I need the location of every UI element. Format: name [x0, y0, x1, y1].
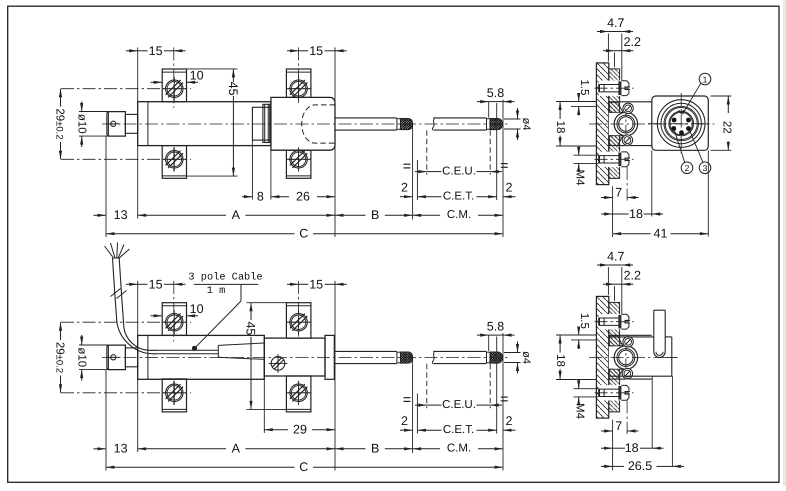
side section top: dim 41	[613, 227, 709, 241]
top view: extended rod knurled tip	[487, 119, 503, 130]
side section top: section axis centerline	[589, 123, 715, 125]
top view: rod tip knurled end	[397, 119, 413, 130]
side section top: lower clamp wedge (hatched)	[609, 136, 623, 146]
side section bottom: dim 4.7	[597, 249, 633, 266]
connector pin 4	[686, 126, 691, 131]
bottom view: dim diameter 4	[504, 342, 532, 374]
svg-text:C.E.U.: C.E.U.	[442, 165, 476, 177]
bottom view: dim C.E.U.	[415, 399, 502, 411]
top view: extension line at rod tip	[412, 124, 414, 220]
bottom view: dim 13	[94, 442, 128, 456]
side section top: body tube layer (hatched)	[609, 69, 620, 178]
svg-text:7: 7	[615, 185, 622, 199]
svg-text:C.E.T.: C.E.T.	[443, 191, 474, 203]
svg-text:29±0.2: 29±0.2	[53, 342, 65, 373]
bottom view: extension line CET left	[416, 394, 418, 434]
bottom view: label 3 pole Cable / 1 m	[188, 272, 262, 298]
bottom view: end block screw	[269, 354, 288, 373]
top view: dim 15 left	[126, 44, 186, 58]
side section top: rod bearing hub	[614, 112, 637, 135]
bottom view: dim 15 left	[126, 278, 186, 292]
bottom view: cable bend	[113, 258, 157, 354]
top view: right upper foot screw	[287, 77, 311, 101]
bottom view: right lower mounting foot	[286, 376, 311, 412]
top view: clamp ring	[263, 104, 270, 142]
svg-text:29: 29	[293, 423, 307, 437]
side section bottom: upper M4 screw	[595, 314, 634, 329]
top view: clevis hole	[108, 121, 120, 126]
top view: equal mark left	[404, 164, 411, 168]
side section bottom: dim 26.5	[601, 459, 684, 473]
svg-text:45: 45	[243, 321, 257, 335]
balloon 2	[675, 131, 693, 174]
svg-text:13: 13	[114, 208, 128, 222]
top view: extended rod (stroke end position)	[432, 118, 486, 130]
bottom view: dim A	[138, 442, 335, 456]
top view: main axis centerline	[102, 123, 508, 125]
svg-text:4.7: 4.7	[607, 16, 624, 30]
side section bottom: lower small screw	[622, 368, 634, 380]
top view: dim 2 left	[400, 181, 413, 199]
svg-text:2.2: 2.2	[624, 35, 641, 49]
top view: end block	[271, 97, 335, 150]
bottom view: extension line CET right	[496, 337, 498, 434]
side section bottom: body tube layer (hatched)	[609, 302, 620, 412]
bottom view: dim diameter 10	[76, 335, 109, 381]
top view: dim 45	[187, 69, 240, 176]
bottom view: rod end nut	[107, 345, 126, 370]
bottom view: dim B	[335, 442, 413, 456]
bottom view: dim C.E.T.	[417, 424, 496, 436]
top view: extension line CET left	[416, 160, 418, 200]
bottom view: right upper foot screw	[287, 310, 311, 334]
bottom view: dim 29	[264, 423, 335, 437]
top view: equal mark right	[501, 164, 508, 168]
svg-text:10: 10	[190, 68, 204, 82]
bottom view: cable label leader	[192, 285, 241, 351]
svg-text:15: 15	[149, 44, 163, 58]
top view: lower screw row centerline	[61, 158, 191, 160]
bottom view: cable frayed wires	[105, 243, 130, 259]
top view: rod spacer cylinder	[125, 114, 137, 133]
svg-text:26.5: 26.5	[628, 459, 652, 473]
bottom view: cable inside body	[155, 350, 218, 354]
top view: right lower screw row centerline	[287, 158, 311, 160]
top view: upper screw row centerline	[61, 88, 191, 90]
side section bottom: cable gland bend	[654, 352, 678, 358]
bottom view: dim 2 right	[503, 414, 516, 432]
bottom view: right screw column centerline	[298, 281, 300, 337]
side section bottom: rod bearing hub	[614, 346, 637, 369]
top view: left lower mounting foot	[162, 146, 186, 179]
bottom view: extension line 5.8 left	[488, 335, 490, 351]
bottom view: equal mark left	[404, 398, 411, 402]
bottom view: equal mark right	[501, 397, 508, 401]
side section bottom: hub vertical centerline	[625, 337, 627, 378]
top view: extension line at rod end	[105, 137, 107, 238]
top view: dim A	[138, 208, 335, 222]
bottom view: left upper foot screw	[162, 310, 186, 334]
svg-text:C: C	[299, 460, 308, 474]
side section top: body outline	[609, 102, 652, 146]
bottom view: lower screw row centerline	[61, 392, 191, 394]
svg-text:ø10: ø10	[76, 347, 88, 367]
svg-text:7: 7	[615, 419, 622, 433]
bottom view: extension line at rod end	[105, 370, 107, 471]
bottom view: extension line at extended tip	[502, 333, 504, 470]
top view: extension line at body left	[137, 47, 139, 218]
side section bottom: hub opening cutout	[609, 345, 652, 370]
svg-text:2: 2	[401, 181, 408, 195]
svg-text:C.M.: C.M.	[447, 209, 471, 221]
svg-text:M4: M4	[574, 403, 586, 420]
top view: dim C.E.T.	[417, 191, 496, 203]
svg-text:M4: M4	[574, 170, 586, 187]
side section top: lower small screw	[622, 134, 634, 146]
side section top: extension line connector plate right	[707, 150, 709, 236]
top view: dim 13	[94, 208, 128, 222]
side section top: dim 18 vertical	[554, 102, 596, 147]
bottom view: right upper mounting foot	[286, 303, 311, 338]
side section bottom: extension line plate bottom	[612, 420, 614, 471]
connector pin 1	[672, 118, 677, 123]
svg-text:ø4: ø4	[520, 351, 532, 364]
svg-text:2: 2	[506, 181, 513, 195]
top view: transducer body	[138, 102, 271, 146]
side section top: upper M4 screw	[595, 81, 634, 96]
svg-text:C.E.T.: C.E.T.	[443, 424, 474, 436]
bottom view: right lower screw row centerline	[287, 392, 311, 394]
top view: right lower mounting foot	[286, 150, 311, 178]
top view: dim 5.8	[477, 86, 515, 103]
side section top: dim 1.5	[556, 79, 596, 115]
svg-text:3: 3	[703, 163, 708, 173]
connector pin 2	[686, 118, 691, 123]
side section bottom: dim M4	[574, 380, 599, 419]
top view: push rod	[335, 118, 397, 130]
bottom view: dim 5.8	[477, 320, 515, 337]
bottom view: dashed extension CEU left	[426, 364, 428, 409]
connector plate	[652, 96, 709, 150]
top view: extension line at extended tip	[502, 100, 504, 237]
bottom view: body left cap line	[147, 335, 149, 379]
side section top: dim 2.2	[603, 35, 641, 52]
bottom view: end cap	[325, 335, 334, 379]
svg-text:C.E.U.: C.E.U.	[442, 399, 476, 411]
bottom view: dim 15 right	[287, 278, 347, 292]
top view: dim 8	[242, 190, 264, 204]
top view: dim diameter 4	[504, 108, 532, 140]
svg-text:18: 18	[554, 354, 566, 367]
svg-text:41: 41	[654, 227, 668, 241]
svg-text:1: 1	[703, 74, 708, 84]
side section bottom: pedestal lines	[652, 376, 672, 466]
top view: left lower foot screw	[162, 147, 186, 171]
side section bottom: flange plate (hatched)	[596, 296, 608, 418]
top view: extension line at block right	[334, 47, 336, 237]
svg-text:3 pole Cable: 3 pole Cable	[188, 272, 262, 284]
svg-text:15: 15	[149, 278, 163, 292]
top view: body left cap line	[147, 102, 149, 146]
svg-text:2: 2	[685, 163, 690, 173]
side section bottom: dim 1.5	[556, 313, 596, 349]
side section bottom: lower clamp wedge (hatched)	[609, 369, 623, 379]
svg-text:B: B	[371, 208, 379, 222]
bottom view: clevis hole	[108, 355, 120, 360]
bottom view: dim 2 left	[400, 414, 413, 432]
bottom view: cable break marks	[111, 289, 127, 299]
top view: right upper screw row centerline	[287, 88, 311, 90]
side section bottom: dim 2.2	[603, 269, 641, 286]
svg-text:18: 18	[629, 207, 643, 221]
bottom view: left lower foot screw	[162, 381, 186, 405]
svg-text:C: C	[299, 227, 308, 241]
top view: dim C.E.U.	[415, 165, 502, 177]
top view: clamp collar	[252, 107, 271, 140]
side section bottom: body block outline	[609, 337, 672, 376]
top view: right screw column centerline	[298, 47, 300, 103]
side section bottom: upper clamp wedge (hatched)	[609, 336, 623, 346]
svg-text:13: 13	[114, 442, 128, 456]
svg-text:2: 2	[506, 414, 513, 428]
top view: dashed extension CEU right	[489, 130, 491, 175]
bottom view: upper screw row centerline	[61, 321, 191, 323]
side section top: hub vertical centerline	[625, 104, 627, 145]
svg-text:4.7: 4.7	[607, 249, 624, 263]
side section bottom: body outline	[609, 335, 652, 379]
side section top: dim 7	[601, 185, 639, 199]
svg-text:B: B	[371, 442, 379, 456]
svg-text:1.5: 1.5	[578, 313, 590, 329]
svg-text:A: A	[232, 442, 241, 456]
bottom view: dim 45	[243, 303, 286, 410]
top view: dim 15 right	[287, 44, 347, 58]
svg-text:10: 10	[190, 302, 204, 316]
top view: extension line collar left	[251, 140, 253, 199]
side section top: lower M4 screw	[595, 152, 634, 167]
side section bottom: cable	[654, 310, 665, 352]
balloon 1	[682, 73, 711, 114]
bottom view: extended rod knurled tip	[487, 352, 503, 363]
side section bottom: upper small screw	[622, 336, 634, 348]
svg-text:2: 2	[401, 414, 408, 428]
side section bottom: section axis centerline	[589, 357, 676, 359]
bottom view: dim C	[106, 460, 503, 474]
top view: dim C	[106, 227, 503, 241]
bottom view: extension line at body left	[137, 281, 139, 452]
svg-text:1.5: 1.5	[578, 79, 590, 95]
side section top: dim 18 horizontal	[601, 207, 663, 221]
connector pin 3	[671, 126, 676, 131]
side section top: extension line connector plate left	[651, 150, 653, 216]
top view: dim 26	[271, 190, 335, 204]
bottom view: right lower foot screw	[287, 381, 311, 405]
bottom view: main axis centerline	[102, 357, 508, 359]
top view: left screw column centerline	[173, 47, 175, 108]
top view: hidden cavity dashed outline	[302, 105, 335, 143]
top view: dim 29 plus-minus	[53, 89, 65, 160]
top view: extension line 5.8 left	[488, 102, 490, 118]
bottom view: extension line block left	[263, 376, 265, 433]
side section top: extension line plate bottom	[612, 186, 614, 237]
top view: dashed extension CEU left	[426, 130, 428, 175]
bottom view: dim 10	[151, 302, 204, 318]
side section top: upper small screw	[622, 103, 634, 115]
top view: dim 10	[151, 68, 204, 84]
top view: dim diameter 10	[76, 102, 109, 148]
svg-text:18: 18	[554, 121, 566, 134]
side section bottom: lower M4 screw	[595, 385, 634, 400]
bottom view: extension line at rod tip	[412, 358, 414, 454]
connector keyway notch	[679, 110, 684, 113]
bottom view: transducer body	[138, 335, 265, 379]
svg-text:5.8: 5.8	[487, 86, 504, 100]
side section bottom: dim 18 horizontal	[601, 441, 664, 455]
dim 22	[711, 96, 733, 150]
svg-text:29±0.2: 29±0.2	[53, 108, 65, 139]
top view: extension line block left	[270, 150, 272, 199]
svg-text:15: 15	[309, 278, 323, 292]
connector pin 5	[679, 130, 684, 135]
balloon 3	[690, 131, 711, 174]
bottom view: left upper mounting foot	[162, 303, 186, 336]
svg-text:2.2: 2.2	[624, 269, 641, 283]
bottom view: left screw column centerline	[173, 281, 175, 342]
top view: left upper foot screw	[162, 77, 186, 101]
side section top: dashed extension screw slot	[626, 167, 628, 201]
connector bezel circles	[657, 100, 705, 148]
svg-text:5.8: 5.8	[487, 320, 504, 334]
side section top: ext lines 4.7 and 2.2	[608, 34, 621, 81]
svg-text:18: 18	[625, 441, 639, 455]
svg-text:15: 15	[309, 44, 323, 58]
bottom view: cable gland cone	[218, 343, 264, 359]
side section bottom: dim 7	[601, 419, 639, 433]
bottom view: extension line at block right	[334, 281, 336, 471]
svg-text:ø10: ø10	[76, 114, 88, 134]
svg-text:ø4: ø4	[520, 118, 532, 131]
bottom view: end block	[264, 338, 325, 376]
bottom view: push rod	[334, 351, 397, 363]
svg-text:1 m: 1 m	[207, 285, 226, 297]
side section top: dim 4.7	[597, 16, 633, 33]
bottom view: right upper screw row centerline	[287, 321, 311, 323]
top view: dim 2 right	[503, 181, 516, 199]
svg-text:45: 45	[226, 82, 240, 96]
svg-text:A: A	[232, 208, 241, 222]
top view: dim C.M.	[413, 209, 503, 221]
svg-text:C.M.: C.M.	[447, 443, 471, 455]
top view: left upper mounting foot	[162, 69, 186, 102]
connector centerlines	[648, 93, 713, 153]
bottom view: dashed extension CEU right	[489, 364, 491, 409]
svg-text:22: 22	[721, 121, 733, 134]
bottom view: dim C.M.	[413, 443, 503, 455]
bottom view: dim 29 plus-minus	[53, 322, 65, 393]
svg-text:8: 8	[257, 190, 264, 204]
bottom view: extended rod (stroke end position)	[432, 351, 486, 363]
svg-text:26: 26	[296, 190, 310, 204]
top view: right lower foot screw	[287, 147, 311, 171]
bottom view: rod spacer cylinder	[125, 348, 137, 367]
top view: extension line CET right	[496, 103, 498, 200]
top view: dim B	[335, 208, 413, 222]
bottom view: left lower mounting foot	[162, 379, 186, 412]
bottom view: rod tip knurled end	[397, 352, 413, 363]
side section top: hub opening cutout	[609, 111, 652, 136]
top view: rod end nut	[107, 112, 126, 137]
side section top: flange plate (hatched)	[596, 63, 608, 185]
side section top: dim M4	[574, 147, 599, 186]
side section bottom: ext lines 4.7 and 2.2	[608, 267, 621, 314]
side section bottom: dim 18 vertical	[554, 335, 596, 380]
side section top: upper clamp wedge (hatched)	[609, 102, 623, 112]
top view: right upper mounting foot	[286, 69, 311, 97]
side section bottom: dashed extension screw slot	[626, 401, 628, 435]
